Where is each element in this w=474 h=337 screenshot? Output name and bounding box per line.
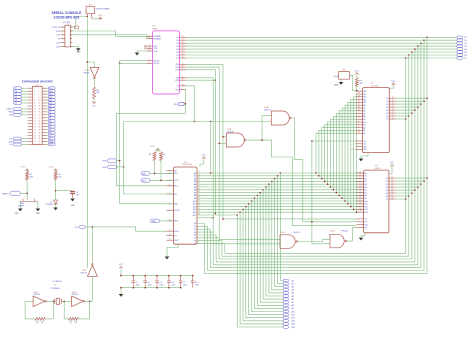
- RAM pin D2: [389, 183, 396, 185]
- svg-text:A3: A3: [364, 180, 366, 183]
- svg-text:D0: D0: [194, 223, 196, 225]
- net A9 from CPU: [197, 197, 364, 199]
- net A0 vertical to bottom: [280, 173, 283, 281]
- wire G1 out to G2: [247, 116, 271, 140]
- net D3 CPU drop: [197, 232, 213, 265]
- svg-text:7: 7: [182, 88, 183, 90]
- svg-text:Y1: Y1: [54, 285, 56, 287]
- svg-text:A2: A2: [194, 177, 196, 180]
- net D0 CPU drop: [197, 224, 205, 274]
- RAM pin A2: [356, 178, 363, 180]
- svg-text:A12: A12: [364, 205, 367, 208]
- svg-text:R/W: R/W: [175, 80, 179, 82]
- svg-text:100n: 100n: [148, 285, 152, 287]
- svg-text:RXDATA: RXDATA: [153, 38, 161, 41]
- svg-text:A12: A12: [363, 98, 366, 101]
- svg-text:D5: D5: [386, 113, 388, 115]
- net D4 bottom wire: [216, 261, 415, 263]
- EEPROM pin VPP: [356, 148, 363, 150]
- svg-text:100n: 100n: [183, 285, 187, 287]
- wire header TX stepped to ACIA RxDATA: [70, 35, 152, 39]
- svg-text:1M: 1M: [74, 322, 77, 324]
- net D2 bottom wire: [210, 267, 421, 269]
- net D7 CPU drop: [197, 244, 225, 254]
- net A3 riser to EEPROM: [325, 125, 356, 182]
- svg-text:VCC: VCC: [150, 146, 155, 148]
- svg-text:25: 25: [358, 109, 360, 111]
- svg-text:U4-C: U4-C: [281, 232, 286, 234]
- junction A2 riser: [321, 178, 323, 180]
- wire to VCC symbol: [92, 18, 101, 20]
- flag A0 bottom: [283, 279, 289, 282]
- svg-text:D2: D2: [386, 104, 388, 106]
- svg-text:R/W: R/W: [9, 115, 13, 117]
- wire EEPROM D5: [396, 112, 412, 114]
- svg-text:D5: D5: [176, 52, 178, 54]
- VCC for LED: [54, 169, 57, 171]
- svg-text:34: 34: [38, 135, 40, 137]
- net D3 bottom wire: [213, 264, 418, 266]
- gate U4A NAND: [271, 111, 289, 125]
- svg-text:21: 21: [182, 39, 184, 41]
- svg-text:D7: D7: [386, 119, 388, 121]
- CPU VCC symbol: [203, 159, 205, 164]
- svg-text:10: 10: [359, 172, 361, 174]
- svg-text:A2: A2: [292, 286, 294, 289]
- svg-text:GND: GND: [15, 213, 20, 215]
- svg-text:A11: A11: [364, 203, 367, 206]
- svg-text:A9: A9: [363, 107, 365, 110]
- svg-text:1M: 1M: [41, 322, 44, 324]
- wire ACIA CS0 down: [186, 64, 356, 219]
- net A10 vertical to bottom: [252, 201, 284, 312]
- svg-text:CS0: CS0: [175, 64, 179, 66]
- svg-text:23: 23: [358, 101, 360, 103]
- svg-text:D5: D5: [386, 193, 388, 195]
- svg-text:A0: A0: [364, 172, 366, 175]
- svg-text:23: 23: [359, 202, 361, 204]
- svg-text:3K3: 3K3: [30, 176, 33, 178]
- net A3 from CPU: [197, 180, 364, 182]
- net D3 top bus wire: [186, 45, 457, 47]
- net D4 CPU drop: [197, 235, 216, 262]
- svg-text:11: 11: [392, 97, 394, 99]
- expansion left flag CLK: [21, 138, 27, 140]
- flag IRQ: [141, 179, 150, 183]
- EEPROM pin WE: [356, 146, 363, 148]
- svg-text:A7: A7: [363, 112, 365, 115]
- EEPROM pin A11: [356, 101, 363, 103]
- svg-text:D7: D7: [194, 243, 196, 245]
- IC U1 6502 CPU: [174, 167, 198, 244]
- svg-text:A5: A5: [292, 295, 294, 298]
- EEPROM pin A9: [356, 107, 363, 109]
- svg-text:18: 18: [392, 118, 394, 120]
- svg-text:D1: D1: [176, 40, 178, 42]
- svg-text:A14: A14: [363, 93, 366, 96]
- expansion right flag A0: [47, 132, 48, 134]
- svg-text:A3: A3: [194, 180, 196, 183]
- svg-text:14: 14: [198, 186, 200, 188]
- svg-text:22: 22: [38, 118, 40, 120]
- svg-text:20: 20: [182, 42, 184, 44]
- junction USB power: [87, 16, 89, 18]
- flag D0 right: [457, 36, 463, 39]
- flag A11 bottom: [283, 313, 289, 316]
- svg-text:D4: D4: [176, 49, 178, 51]
- expansion right flag A11: [47, 99, 48, 101]
- svg-text:62256: 62256: [375, 168, 382, 170]
- svg-text:A6: A6: [363, 115, 365, 118]
- junction A7 riser: [336, 192, 338, 194]
- resistor R3: [153, 152, 156, 161]
- net A14 riser to EEPROM: [355, 94, 358, 212]
- ground sw left: [18, 209, 23, 212]
- junction D7 at EEPROM: [405, 118, 407, 120]
- svg-text:A9: A9: [364, 197, 366, 200]
- EEPROM pin D1: [389, 100, 396, 102]
- flag A3 bottom: [283, 289, 289, 292]
- net A2 riser to EEPROM: [322, 128, 356, 179]
- net D6 CPU drop: [197, 241, 222, 257]
- junction A7 drop: [259, 192, 261, 194]
- svg-text:VCC: VCC: [202, 155, 207, 157]
- svg-text:SYNC: SYNC: [174, 210, 180, 212]
- junction A13 riser: [353, 209, 355, 211]
- net A10 from CPU: [197, 200, 364, 202]
- svg-text:A9: A9: [292, 307, 294, 310]
- svg-text:23: 23: [149, 50, 151, 52]
- flag NMI: [141, 172, 150, 176]
- ACIA pin CS1: [180, 66, 186, 68]
- junction A0 riser: [315, 172, 317, 174]
- svg-text:A11: A11: [193, 203, 196, 206]
- svg-text:RESET: RESET: [7, 109, 14, 111]
- svg-text:12: 12: [391, 180, 393, 182]
- junction A1 riser: [318, 175, 320, 177]
- svg-text:74HC00: 74HC00: [264, 109, 271, 111]
- svg-text:GND: GND: [36, 213, 41, 215]
- svg-text:R3: R3: [149, 154, 151, 156]
- svg-text:15: 15: [34, 109, 36, 111]
- net D6 bottom wire: [222, 255, 409, 257]
- expansion right flag A2: [47, 126, 48, 128]
- junction A3 drop: [271, 181, 273, 183]
- svg-text:37: 37: [34, 141, 36, 143]
- net D1 right vertical: [423, 40, 425, 270]
- svg-text:A14: A14: [364, 211, 367, 214]
- junction A0 drop: [280, 172, 282, 174]
- EEPROM pin D0: [389, 97, 396, 99]
- svg-text:A14: A14: [193, 211, 196, 214]
- svg-text:GND: GND: [76, 52, 81, 54]
- EEPROM pin D7: [389, 118, 396, 120]
- junction D0 at EEPROM: [426, 97, 428, 99]
- svg-text:Read: Read: [334, 76, 338, 78]
- svg-text:2: 2: [38, 88, 39, 90]
- svg-text:8: 8: [182, 63, 183, 65]
- ACIA data pin D5: [180, 51, 186, 53]
- expansion right flag A6: [47, 114, 48, 116]
- expansion left flag +5V: [21, 143, 27, 145]
- net CLK wire to CPU PHI0: [85, 227, 166, 231]
- expansion left flag GND: [21, 141, 27, 143]
- expansion right flag A15: [47, 87, 48, 89]
- svg-text:115200 BPS 8N1: 115200 BPS 8N1: [53, 16, 79, 20]
- svg-text:20: 20: [38, 115, 40, 117]
- svg-text:11: 11: [198, 177, 200, 179]
- svg-text:74HC00: 74HC00: [341, 231, 348, 233]
- svg-text:1: 1: [34, 88, 35, 90]
- ACIA pin RXCLK: [146, 60, 152, 62]
- svg-text:D2: D2: [15, 103, 17, 105]
- svg-text:A11: A11: [363, 101, 366, 104]
- svg-text:A5: A5: [194, 186, 196, 189]
- jumper JP2 USB POWER: [86, 6, 95, 13]
- net A7 from CPU: [197, 192, 364, 194]
- wire EEPROM D7: [396, 118, 406, 120]
- svg-text:26: 26: [358, 95, 360, 97]
- ACIA pin E: [180, 85, 186, 87]
- feedback wires to resistors: [24, 301, 26, 319]
- expansion left flag D6: [21, 90, 27, 92]
- svg-text:D3: D3: [386, 187, 388, 189]
- ground sw right: [36, 209, 41, 212]
- net D1 CPU drop: [197, 226, 207, 270]
- junction A2 drop: [274, 178, 276, 180]
- svg-text:R/W: R/W: [103, 161, 107, 163]
- wire serial header pin1 to USB jumper: [70, 17, 87, 27]
- svg-text:R4: R4: [163, 154, 165, 156]
- EEPROM pin A4: [356, 121, 363, 123]
- svg-text:9: 9: [34, 100, 35, 102]
- flag A6 bottom: [283, 298, 289, 301]
- flag RESET left: [10, 191, 21, 195]
- net D6 top bus wire: [186, 54, 457, 56]
- svg-text:D4: D4: [386, 110, 388, 112]
- resistor R2 470: [54, 172, 57, 180]
- svg-text:10: 10: [198, 174, 200, 176]
- svg-text:22: 22: [198, 208, 200, 210]
- svg-text:17: 17: [34, 112, 36, 114]
- net RXCLK to CPU: [120, 203, 174, 205]
- net A6 riser to EEPROM: [333, 116, 355, 189]
- net A8 vertical to bottom: [257, 195, 283, 305]
- svg-text:D3: D3: [194, 232, 196, 234]
- svg-text:5: 5: [34, 94, 35, 96]
- resistor R6 1M: [35, 317, 45, 320]
- svg-text:3: 3: [34, 91, 35, 93]
- svg-text:13: 13: [391, 183, 393, 185]
- junction A9 drop: [254, 197, 256, 199]
- expansion right flag GND: [47, 141, 48, 143]
- svg-text:A6: A6: [292, 298, 294, 301]
- ACIA data pin D4: [180, 48, 186, 50]
- junction D1 at EEPROM: [423, 100, 425, 102]
- svg-text:D1: D1: [386, 101, 388, 103]
- EEPROM pin A2: [356, 127, 363, 129]
- flag A2 bottom: [283, 285, 289, 288]
- svg-text:74HC04: 74HC04: [83, 72, 89, 74]
- svg-text:7.3728MHZ: 7.3728MHZ: [50, 288, 61, 290]
- expansion left flag D5: [21, 93, 27, 95]
- junction D3 at RAM: [417, 186, 419, 188]
- svg-text:A7: A7: [194, 191, 196, 194]
- svg-text:D2: D2: [386, 184, 388, 186]
- net D0 top bus wire: [186, 36, 457, 38]
- svg-text:23: 23: [198, 211, 200, 213]
- expansion right flag +5V: [47, 143, 48, 145]
- inverter U6-B: [72, 296, 84, 307]
- svg-text:25: 25: [359, 194, 361, 196]
- wire EEPROM D3: [396, 106, 418, 108]
- svg-text:14: 14: [182, 84, 184, 86]
- RAM ground: [361, 233, 365, 238]
- EEPROM pin A7: [356, 113, 363, 115]
- RAM pin D1: [389, 180, 396, 182]
- net A14 vertical to bottom: [240, 212, 283, 324]
- svg-text:RESET: RESET: [18, 206, 25, 208]
- CPU pin RDY: [166, 172, 173, 174]
- net A3 vertical to bottom: [272, 181, 284, 289]
- junction D3 top: [417, 45, 419, 47]
- RAM pin A6: [356, 189, 363, 191]
- expansion left flag R/W: [21, 114, 27, 116]
- flag A1 bottom: [283, 282, 289, 285]
- net D5 right vertical: [411, 52, 413, 259]
- net D4 top bus wire: [186, 48, 457, 50]
- svg-text:A1: A1: [194, 175, 196, 178]
- junction D5 top: [411, 51, 413, 53]
- svg-text:1x 74HC04: 1x 74HC04: [52, 281, 61, 283]
- svg-text:A1: A1: [292, 282, 294, 285]
- expansion right flag A4: [47, 120, 48, 122]
- svg-text:10: 10: [358, 132, 360, 134]
- wire RAM D1: [396, 180, 424, 182]
- flag A13 bottom: [283, 320, 289, 323]
- svg-text:D3: D3: [176, 46, 178, 48]
- net A1 from CPU: [197, 175, 364, 177]
- net A5 from CPU: [197, 186, 364, 188]
- svg-text:32: 32: [38, 132, 40, 134]
- wire G3 out to G4: [298, 239, 330, 241]
- CPU pin SO: [166, 235, 173, 237]
- svg-text:A6: A6: [364, 189, 366, 192]
- svg-text:31: 31: [34, 132, 36, 134]
- expansion left flag D4: [21, 96, 27, 98]
- flag D7 right: [457, 57, 463, 60]
- svg-text:11: 11: [392, 177, 394, 179]
- expansion right flag A8: [47, 108, 48, 110]
- svg-text:NMI: NMI: [142, 173, 146, 175]
- junction D1 at RAM: [423, 180, 425, 182]
- svg-text:16: 16: [182, 54, 184, 56]
- svg-text:D6: D6: [386, 116, 388, 118]
- svg-text:A0: A0: [292, 279, 294, 282]
- EEPROM ground: [361, 153, 368, 159]
- svg-text:17: 17: [391, 195, 393, 197]
- svg-text:21: 21: [198, 205, 200, 207]
- svg-text:RXCLK: RXCLK: [153, 60, 160, 62]
- EEPROM pin A12: [356, 99, 363, 101]
- net A1 vertical to bottom: [278, 176, 284, 284]
- junction A9 riser: [341, 197, 343, 199]
- expansion left flag D7: [21, 87, 27, 89]
- expansion right flag A7: [47, 111, 48, 113]
- net A7 vertical to bottom: [260, 193, 283, 303]
- svg-text:A0: A0: [363, 132, 365, 135]
- RAM pin D3: [389, 186, 396, 188]
- RAM pin A5: [356, 186, 363, 188]
- svg-text:4: 4: [38, 91, 39, 93]
- wire ACIA R/W tap: [186, 79, 215, 81]
- CPU pin ML: [166, 193, 173, 195]
- net A7 riser to EEPROM: [336, 114, 355, 193]
- svg-text:6: 6: [38, 94, 39, 96]
- RAM pin OE: [356, 221, 363, 223]
- RAM pin A14: [356, 224, 363, 226]
- wire RAM D5: [396, 192, 412, 194]
- wire RAM D6: [396, 195, 409, 197]
- svg-text:D1: D1: [194, 226, 196, 228]
- net D1 bottom wire: [207, 270, 424, 272]
- connector P1 expansion header: [32, 86, 42, 144]
- ACIA pin CTS: [146, 47, 152, 49]
- svg-text:24: 24: [358, 107, 360, 109]
- net D6 right vertical: [408, 55, 410, 256]
- wire G1 out branch stepped down to RAM: [262, 140, 356, 226]
- RAM pin A10: [356, 200, 363, 202]
- svg-text:19: 19: [34, 115, 36, 117]
- svg-text:36: 36: [38, 138, 40, 140]
- flag D2 right: [457, 42, 463, 45]
- junction A10 riser: [344, 200, 346, 202]
- junction D4 top: [414, 48, 416, 50]
- net clock vertical to inverter: [91, 227, 93, 264]
- EEPROM pin A10: [356, 104, 363, 106]
- wire RAM D0: [396, 177, 427, 179]
- junction A8 drop: [257, 195, 259, 197]
- svg-text:15: 15: [391, 189, 393, 191]
- svg-text:24: 24: [198, 214, 200, 216]
- junction A6 riser: [333, 189, 335, 191]
- switch SW1 reset button: [20, 201, 38, 203]
- expansion right flag A13: [47, 93, 48, 95]
- expansion left flag PHI2: [21, 111, 27, 113]
- svg-text:R7: R7: [70, 322, 72, 324]
- svg-text:D2: D2: [176, 43, 178, 45]
- svg-text:13: 13: [182, 79, 184, 81]
- svg-text:7: 7: [34, 97, 35, 99]
- ACIA data pin D7: [180, 57, 186, 59]
- RAM pin A3: [356, 180, 363, 182]
- EEPROM VCC: [389, 85, 393, 88]
- CPU pin RES: [166, 220, 173, 222]
- RAM pin A8: [356, 194, 363, 196]
- svg-text:10: 10: [38, 100, 40, 102]
- junction R5 WE: [356, 86, 358, 91]
- RAM pin A12: [356, 206, 363, 208]
- svg-text:VCC: VCC: [98, 15, 103, 17]
- junction D5 at EEPROM: [411, 112, 413, 114]
- CPU pin IRQ: [166, 185, 173, 187]
- svg-text:14: 14: [391, 186, 393, 188]
- svg-text:PHI2: PHI2: [174, 240, 178, 242]
- svg-text:USB POWER: USB POWER: [96, 9, 110, 11]
- net R/W from CPU to gate: [197, 217, 213, 219]
- resistor R7 1M: [69, 317, 79, 320]
- svg-text:A13: A13: [292, 320, 295, 323]
